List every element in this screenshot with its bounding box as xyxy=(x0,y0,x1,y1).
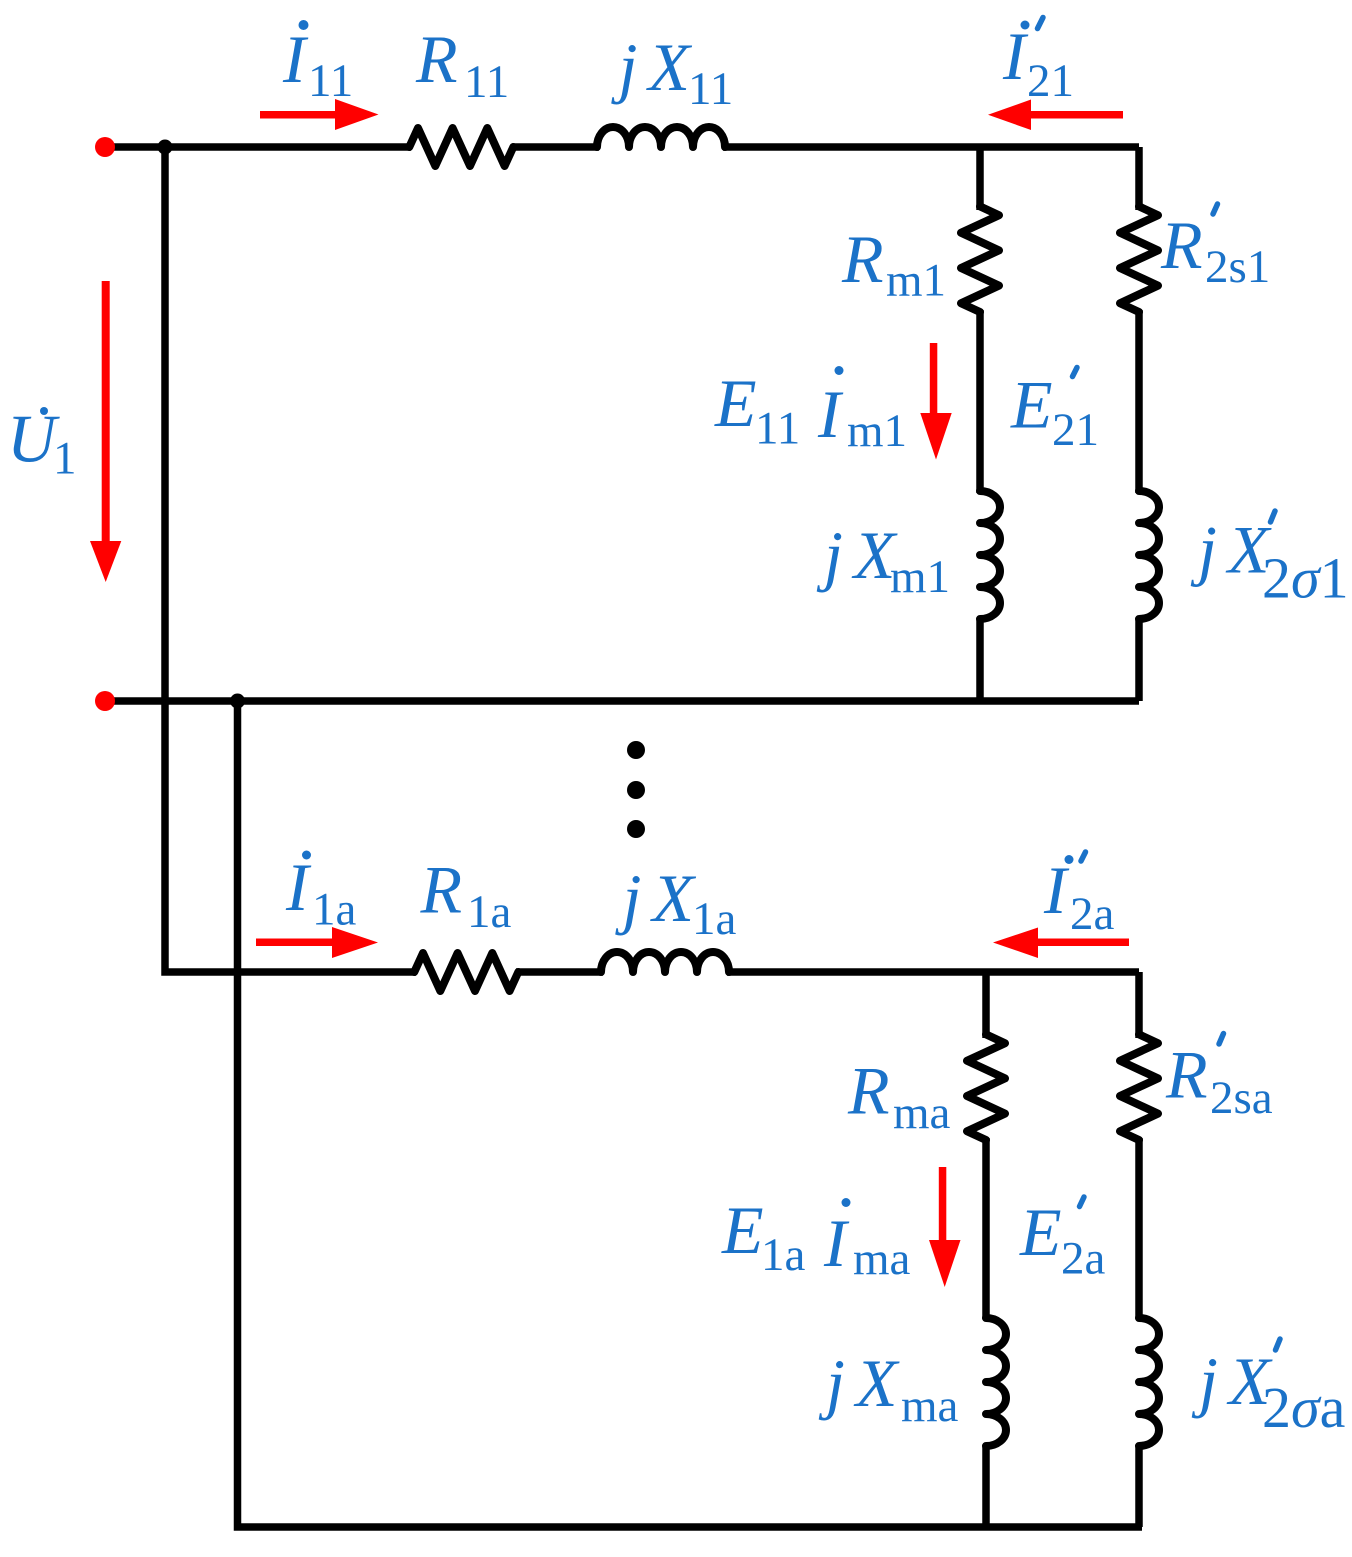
svg-text:R: R xyxy=(841,221,884,297)
svg-text:2sa: 2sa xyxy=(1210,1072,1273,1124)
svg-text:ma: ma xyxy=(893,1087,951,1139)
svg-text:I: I xyxy=(282,21,309,97)
current arrow I'21 xyxy=(988,100,1123,131)
svg-text:I: I xyxy=(823,1205,850,1281)
inductor jX11 xyxy=(597,127,725,147)
svg-text:1a: 1a xyxy=(692,893,737,945)
svg-text:2a: 2a xyxy=(1061,1233,1106,1285)
wire circuit2 branch1 middle segment xyxy=(982,1138,990,1319)
svg-text:21: 21 xyxy=(1027,55,1074,107)
label U1 xyxy=(7,401,77,485)
resistor Rma xyxy=(967,1034,1005,1140)
wire circuit1 branch2 upper stub xyxy=(1135,147,1143,210)
inductor jX1a xyxy=(601,952,729,972)
svg-text:11: 11 xyxy=(688,63,733,115)
svg-text:21: 21 xyxy=(1052,404,1099,456)
ellipsis dot 2 xyxy=(627,781,645,799)
svg-text:R: R xyxy=(415,21,458,97)
label R'2sa xyxy=(1165,1034,1273,1125)
label Im1 xyxy=(817,366,907,457)
resistor Rm1 xyxy=(961,206,999,312)
label E'21 xyxy=(1010,367,1099,457)
svg-text:1a: 1a xyxy=(761,1229,806,1281)
label jX1a xyxy=(615,860,737,945)
resistor R'2s1 xyxy=(1120,206,1158,312)
current arrow I11 xyxy=(260,99,379,130)
svg-text:E: E xyxy=(714,365,757,441)
voltage arrow U1 xyxy=(90,281,121,582)
label jXma xyxy=(818,1345,959,1432)
junction node on top wire xyxy=(158,140,173,155)
ellipsis dot 3 xyxy=(627,820,645,838)
label Rma xyxy=(847,1053,951,1140)
wire circuit1 branch1 middle segment xyxy=(976,310,984,493)
label I'2a xyxy=(1043,852,1115,940)
svg-text:I: I xyxy=(285,849,312,925)
svg-text:2σ1: 2σ1 xyxy=(1262,546,1349,611)
svg-text:R: R xyxy=(1160,207,1203,283)
current arrow Ima xyxy=(929,1167,961,1287)
inductor jXm1 xyxy=(980,491,1000,619)
label jX'2sigmaa xyxy=(1191,1339,1345,1440)
svg-text:R: R xyxy=(1165,1037,1208,1113)
svg-text:ma: ma xyxy=(901,1380,959,1432)
svg-text:11: 11 xyxy=(308,55,353,107)
label jX'2sigma1 xyxy=(1190,511,1349,611)
wire circuit2 branch2 middle segment xyxy=(1135,1138,1143,1319)
label E1a xyxy=(721,1192,806,1281)
svg-text:2σa: 2σa xyxy=(1262,1375,1345,1440)
terminal bottom-left (red) xyxy=(95,691,115,711)
wire circuit2 branch2 upper stub xyxy=(1135,972,1143,1038)
wire left vertical from top terminal down to circuit 2 top and across xyxy=(165,147,416,972)
wire circuit1 branch1 upper stub xyxy=(976,147,984,210)
svg-text:m1: m1 xyxy=(886,255,946,307)
wire circuit1 branch1 lower stub xyxy=(976,618,984,701)
resistor R11 xyxy=(409,128,513,166)
svg-text:1a: 1a xyxy=(467,886,512,938)
current arrow I1a xyxy=(256,927,378,958)
svg-text:I: I xyxy=(1043,852,1070,928)
label R11 xyxy=(415,21,509,108)
label E'2a xyxy=(1019,1194,1106,1285)
resistor R'2sa xyxy=(1120,1034,1158,1140)
svg-text:1: 1 xyxy=(53,433,77,485)
svg-text:1a: 1a xyxy=(312,884,357,936)
wire circuit1 branch2 lower stub xyxy=(1135,618,1143,701)
label Rm1 xyxy=(841,221,946,307)
resistor R1a xyxy=(414,953,518,991)
svg-text:jX: jX xyxy=(818,1345,908,1421)
svg-text:2s1: 2s1 xyxy=(1205,241,1270,293)
svg-text:2a: 2a xyxy=(1070,888,1115,940)
wire second left vertical from circuit-1 bottom to circuit-2 bottom and across xyxy=(238,701,1143,1527)
label I11 xyxy=(282,20,353,107)
svg-text:E: E xyxy=(1010,367,1053,443)
label I1a xyxy=(285,849,357,936)
svg-text:ma: ma xyxy=(853,1233,911,1285)
svg-text:11: 11 xyxy=(755,403,800,455)
svg-text:m1: m1 xyxy=(847,405,907,457)
current arrow I'2a xyxy=(993,928,1129,959)
wire circuit2 branch1 lower stub xyxy=(982,1445,990,1527)
wire circuit1 branch2 middle segment xyxy=(1135,310,1143,493)
svg-text:I: I xyxy=(817,376,844,452)
wire bottom of circuit 1 xyxy=(105,697,1139,705)
current arrow Im1 xyxy=(920,343,951,460)
svg-text:E: E xyxy=(1019,1194,1062,1270)
inductor jX'2sigma1 xyxy=(1139,491,1159,619)
ellipsis dot 1 xyxy=(627,741,645,759)
svg-text:R: R xyxy=(847,1053,890,1129)
label jX11 xyxy=(611,29,734,115)
junction node on circuit1 bottom wire xyxy=(230,694,245,709)
wire top of circuit 1 xyxy=(105,143,411,151)
svg-text:m1: m1 xyxy=(890,551,950,603)
label jXm1 xyxy=(816,517,950,603)
terminal top-left (red) xyxy=(95,137,115,157)
svg-text:R: R xyxy=(420,852,463,928)
inductor jX'2sigmaa xyxy=(1139,1318,1159,1446)
label E11 xyxy=(714,365,800,455)
svg-text:E: E xyxy=(721,1192,764,1268)
wire circuit2 branch1 upper stub xyxy=(982,972,990,1038)
svg-text:11: 11 xyxy=(464,56,509,108)
label Ima xyxy=(823,1198,911,1285)
label R1a xyxy=(420,852,512,939)
label I'21 xyxy=(1002,18,1074,108)
label R'2s1 xyxy=(1160,204,1270,293)
wire circuit2 branch2 lower stub xyxy=(1135,1445,1143,1527)
inductor jXma xyxy=(986,1318,1006,1446)
